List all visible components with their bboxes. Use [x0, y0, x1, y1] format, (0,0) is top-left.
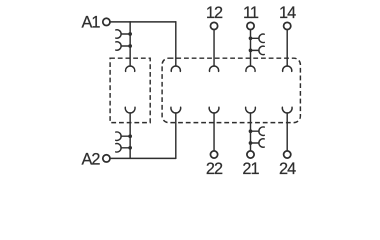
- plug socket coil top (top edge of coil base): [126, 66, 135, 71]
- plug socket coil bottom (bottom edge of coil base): [125, 107, 135, 113]
- module tap socket arc A2-1: [116, 132, 121, 141]
- terminal circle A1: [103, 18, 110, 25]
- module tap socket arc 11-2: [259, 46, 264, 55]
- terminal circle 22: [210, 151, 217, 158]
- wire terminal 24 up: [286, 113, 288, 150]
- plug socket 14 (top edge of contact base): [283, 66, 292, 71]
- wire A1 riser to contact base: [175, 22, 177, 66]
- wire terminal 11 down: [250, 30, 252, 66]
- wire A2 horizontal: [111, 157, 176, 159]
- plug socket 12 (top edge of contact base): [209, 66, 218, 71]
- svg-text:24: 24: [279, 160, 296, 178]
- module tap socket arc 21-1: [259, 127, 264, 136]
- plug socket A1 riser (top edge of contact base): [171, 66, 180, 71]
- module tap stub 11-2: [251, 49, 259, 51]
- module tap stub 11-1: [251, 37, 259, 39]
- relay coil plug-in base (dashed box K1 coil side): [110, 58, 150, 122]
- terminal circle 12: [210, 22, 217, 29]
- plug socket 21 (bottom edge of contact base): [246, 107, 256, 113]
- module tap stub A2-1: [121, 135, 130, 137]
- relay contact plug-in base (dashed rounded box, contact side): [162, 58, 300, 122]
- module tap socket arc A1-1: [116, 30, 121, 38]
- wire terminal 12 down: [213, 30, 215, 66]
- svg-text:11: 11: [243, 4, 259, 22]
- junction dot A2-1: [128, 134, 132, 138]
- module tap socket arc 11-1: [259, 34, 264, 43]
- module tap stub A1-2: [121, 45, 130, 47]
- junction dot A1-2: [128, 44, 132, 48]
- plug socket 24 (bottom edge of contact base): [282, 107, 292, 113]
- junction dot 11-1: [249, 36, 253, 40]
- svg-text:12: 12: [206, 4, 223, 22]
- module tap stub A2-2: [121, 147, 130, 149]
- svg-text:14: 14: [279, 4, 296, 22]
- junction dot 11-2: [249, 49, 253, 53]
- svg-text:22: 22: [206, 160, 223, 178]
- module tap socket arc 21-2: [259, 139, 264, 148]
- wire terminal 22 up: [213, 113, 215, 150]
- wire coil to A2: [129, 113, 131, 158]
- wire A2 riser from contact base: [175, 113, 177, 158]
- plug socket 22 (bottom edge of contact base): [209, 107, 219, 113]
- wire terminal 21 up: [250, 113, 252, 150]
- terminal circle A2: [103, 155, 110, 162]
- wire A1 coil branch: [129, 22, 131, 66]
- terminal circle 11: [247, 22, 254, 29]
- junction dot 21-2: [249, 141, 253, 145]
- terminal circle 24: [284, 151, 291, 158]
- terminal circle 21: [247, 151, 254, 158]
- svg-text:A2: A2: [81, 151, 100, 169]
- module tap socket arc A1-2: [116, 42, 121, 51]
- plug socket A2 riser (bottom edge of contact base): [171, 107, 181, 113]
- svg-text:A1: A1: [81, 13, 100, 31]
- junction dot A1-1: [128, 32, 132, 36]
- plug socket 11 (top edge of contact base): [246, 66, 255, 71]
- wire A1 horizontal: [111, 21, 176, 23]
- module tap stub A1-1: [121, 33, 130, 35]
- wire terminal 14 down: [286, 30, 288, 66]
- module tap socket arc A2-2: [116, 144, 121, 153]
- junction dot A2-2: [128, 146, 132, 150]
- terminal circle 14: [284, 22, 291, 29]
- svg-text:21: 21: [242, 160, 259, 178]
- module tap stub 21-2: [251, 142, 259, 144]
- junction dot 21-1: [249, 129, 253, 133]
- module tap stub 21-1: [251, 130, 259, 132]
